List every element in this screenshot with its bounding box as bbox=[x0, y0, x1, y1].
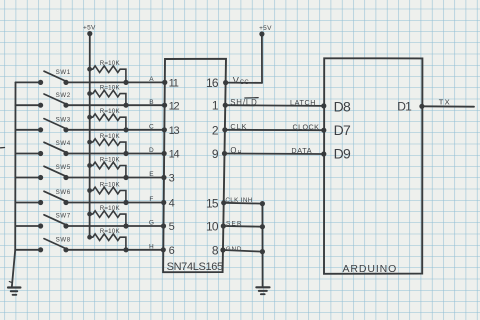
svg-text:G: G bbox=[149, 220, 154, 227]
svg-text:D7: D7 bbox=[334, 122, 351, 138]
svg-text:12: 12 bbox=[169, 100, 180, 112]
svg-text:SW3: SW3 bbox=[56, 117, 71, 124]
svg-text:SW1: SW1 bbox=[56, 69, 71, 76]
svg-text:D9: D9 bbox=[334, 145, 351, 161]
svg-text:R=10K: R=10K bbox=[100, 181, 121, 188]
svg-text:LATCH: LATCH bbox=[290, 98, 316, 107]
svg-text:ARDUINO: ARDUINO bbox=[343, 263, 398, 275]
svg-text:SW8: SW8 bbox=[56, 237, 71, 244]
svg-text:CLK INH: CLK INH bbox=[225, 197, 252, 204]
svg-text:R=10K: R=10K bbox=[100, 228, 121, 235]
svg-text:V: V bbox=[233, 76, 240, 86]
svg-text:SH/LD: SH/LD bbox=[230, 98, 257, 107]
svg-text:TX: TX bbox=[439, 98, 451, 107]
svg-text:E: E bbox=[149, 171, 154, 178]
svg-text:CLOCK: CLOCK bbox=[293, 123, 320, 132]
svg-text:R=10K: R=10K bbox=[100, 205, 121, 212]
svg-text:SER: SER bbox=[226, 220, 243, 227]
svg-text:SW5: SW5 bbox=[56, 164, 71, 171]
svg-text:SW7: SW7 bbox=[56, 213, 71, 220]
svg-text:R=10K: R=10K bbox=[100, 156, 121, 163]
svg-text:DATA: DATA bbox=[291, 146, 312, 155]
svg-text:R=10K: R=10K bbox=[100, 84, 121, 91]
svg-text:CC: CC bbox=[240, 80, 250, 86]
svg-text:CLK: CLK bbox=[230, 122, 247, 131]
svg-text:R=10K: R=10K bbox=[100, 60, 121, 67]
svg-text:10: 10 bbox=[206, 220, 219, 234]
svg-text:B: B bbox=[149, 99, 153, 106]
svg-text:F: F bbox=[149, 196, 153, 203]
svg-text:H: H bbox=[238, 150, 242, 156]
svg-text:11: 11 bbox=[169, 78, 179, 90]
svg-text:SW2: SW2 bbox=[56, 92, 71, 99]
svg-text:15: 15 bbox=[206, 196, 219, 210]
svg-text:R=10K: R=10K bbox=[100, 108, 121, 115]
svg-text:R=10K: R=10K bbox=[100, 133, 121, 140]
svg-text:+5V: +5V bbox=[259, 25, 272, 32]
svg-text:+5V: +5V bbox=[83, 24, 96, 31]
svg-text:D8: D8 bbox=[334, 99, 351, 115]
svg-text:D1: D1 bbox=[397, 99, 412, 113]
svg-text:GND: GND bbox=[226, 246, 242, 253]
svg-text:A: A bbox=[149, 76, 154, 83]
svg-text:SW4: SW4 bbox=[56, 140, 71, 147]
svg-text:H: H bbox=[149, 243, 154, 250]
svg-text:C: C bbox=[149, 123, 154, 130]
svg-text:Q: Q bbox=[230, 146, 236, 155]
svg-text:SN74LS165: SN74LS165 bbox=[167, 261, 223, 273]
svg-text:14: 14 bbox=[169, 149, 180, 161]
svg-text:16: 16 bbox=[206, 76, 219, 90]
svg-text:SW6: SW6 bbox=[56, 189, 71, 196]
svg-text:13: 13 bbox=[169, 125, 180, 137]
svg-text:D: D bbox=[149, 147, 154, 154]
